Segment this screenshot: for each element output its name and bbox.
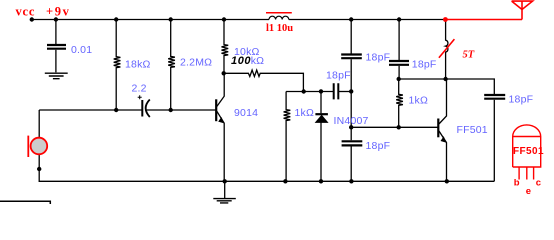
antenna bbox=[521, 1, 523, 19]
node mic-bottom bbox=[37, 167, 41, 171]
svg-text:c: c bbox=[536, 178, 541, 189]
node rail-c399 bbox=[397, 17, 401, 21]
capacitor 18pF column x351 bottom bbox=[342, 141, 363, 145]
svg-text:9014: 9014 bbox=[234, 107, 258, 119]
node diode-top bbox=[319, 89, 323, 93]
emitter arrow Q1 bbox=[218, 117, 224, 124]
capacitor 18pF column x399 bbox=[398, 20, 400, 61]
svg-text:l1 10u: l1 10u bbox=[266, 23, 293, 34]
svg-text:FF501: FF501 bbox=[513, 146, 544, 157]
node mic-18k bbox=[114, 108, 118, 112]
node 100k-col bbox=[222, 71, 226, 75]
inductor L1 10u bbox=[269, 16, 289, 19]
node base-22M bbox=[169, 108, 173, 112]
node rail-22M bbox=[169, 17, 173, 21]
svg-text:FF501: FF501 bbox=[457, 124, 488, 136]
node c351-bottom bbox=[349, 179, 353, 183]
capacitor 18pF column x351 top bbox=[350, 20, 352, 54]
wire mic top bbox=[38, 110, 40, 137]
wire top rail right segment bbox=[289, 19, 446, 21]
wire bottom rail bbox=[39, 155, 494, 182]
node gnd-emitter bbox=[223, 179, 227, 183]
resistor 2.2M bbox=[168, 20, 175, 111]
node tank-left bbox=[397, 77, 401, 81]
resistor 18k bbox=[114, 20, 121, 111]
svg-text:0.01: 0.01 bbox=[71, 44, 92, 56]
node diode-bottom bbox=[319, 179, 323, 183]
svg-text:b: b bbox=[514, 178, 520, 189]
node ff501-e bbox=[445, 179, 449, 183]
microphone MIC bbox=[28, 136, 47, 157]
capacitor C 0.01 bbox=[55, 20, 57, 45]
plus sign of 2.2 cap bbox=[138, 95, 142, 99]
node fb bbox=[302, 89, 306, 93]
svg-text:kΩ: kΩ bbox=[251, 55, 265, 67]
svg-text:+9v: +9v bbox=[46, 5, 70, 19]
svg-text:1kΩ: 1kΩ bbox=[295, 107, 315, 119]
ground center bottom bbox=[224, 181, 226, 198]
red wire antenna feed bbox=[445, 1, 532, 19]
resistor 1k (left) bbox=[284, 92, 291, 182]
svg-text:100: 100 bbox=[231, 55, 251, 67]
svg-text:18pF: 18pF bbox=[366, 140, 391, 152]
node rail-18k bbox=[114, 17, 118, 21]
svg-text:2.2: 2.2 bbox=[132, 83, 147, 95]
svg-text:2.2MΩ: 2.2MΩ bbox=[180, 57, 212, 69]
wire x351 middle bbox=[350, 91, 352, 140]
node c351-mid bbox=[349, 89, 353, 93]
capacitor 18pF right bbox=[484, 95, 505, 99]
ground below 0.01 bbox=[45, 73, 68, 79]
svg-text:1kΩ: 1kΩ bbox=[409, 95, 429, 107]
wire base row y127 bbox=[351, 126, 437, 128]
pin e bbox=[526, 167, 528, 180]
svg-text:18pF: 18pF bbox=[326, 70, 351, 82]
svg-text:18pF: 18pF bbox=[509, 93, 534, 105]
node 1k-bottom bbox=[283, 179, 287, 183]
node red rail bbox=[443, 17, 448, 22]
svg-text:18pF: 18pF bbox=[412, 58, 437, 70]
transistor pinout package FF501 bbox=[513, 125, 541, 180]
node tank-mid bbox=[443, 77, 447, 81]
svg-text:18pF: 18pF bbox=[366, 52, 391, 64]
pin c bbox=[533, 167, 535, 180]
transistor Q2 FF501 bbox=[437, 119, 439, 138]
svg-text:IN4007: IN4007 bbox=[334, 115, 369, 127]
pin b bbox=[518, 167, 520, 180]
resistor 1k (right) bbox=[396, 79, 403, 127]
wire mic line left bbox=[39, 109, 142, 111]
red slash var inductor bbox=[439, 39, 455, 58]
node c351-base bbox=[349, 125, 353, 129]
variable inductor 5T bbox=[446, 20, 448, 80]
svg-text:18kΩ: 18kΩ bbox=[125, 59, 151, 71]
capacitor 18pF horizontal bbox=[334, 83, 339, 99]
node 1k-base bbox=[397, 125, 401, 129]
box bottom-left corner bbox=[0, 201, 50, 204]
capacitor 2.2 electrolytic bbox=[141, 100, 143, 117]
resistor 100k vertical bbox=[222, 20, 229, 73]
svg-text:e: e bbox=[526, 186, 531, 197]
emitter arrow Q2 bbox=[441, 136, 447, 143]
wire top rail left segment bbox=[32, 19, 269, 21]
transistor Q1 9014 bbox=[215, 99, 217, 121]
resistor 100k horizontal bbox=[224, 70, 304, 91]
wire node row y91.5 bbox=[286, 91, 333, 93]
wire y79 row bbox=[399, 79, 495, 94]
diode IN4007 bbox=[320, 91, 322, 113]
svg-text:vcc: vcc bbox=[16, 4, 36, 18]
red overline L1 bbox=[266, 12, 292, 14]
svg-text:5T: 5T bbox=[463, 50, 475, 61]
node rail-c351 bbox=[349, 17, 353, 21]
node rail-vcc bbox=[30, 17, 34, 21]
node rail-c001 bbox=[54, 17, 58, 21]
node rail-100k bbox=[222, 17, 226, 21]
